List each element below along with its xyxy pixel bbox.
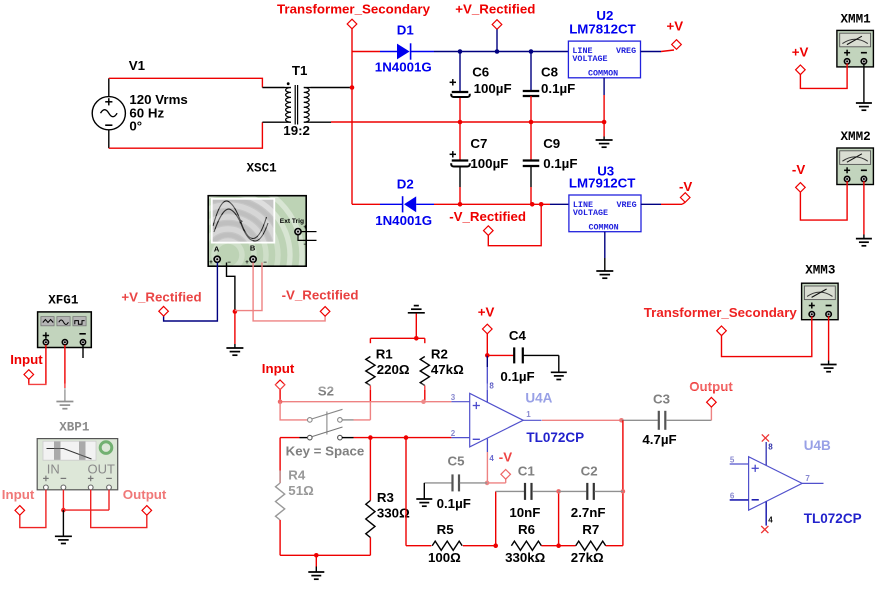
- svg-text:C1: C1: [518, 463, 536, 478]
- svg-text:-V: -V: [792, 162, 805, 177]
- svg-text:C4: C4: [509, 328, 527, 343]
- svg-text:−: −: [263, 260, 267, 266]
- svg-text:+V_Rectified: +V_Rectified: [455, 2, 535, 17]
- svg-text:Key = Space: Key = Space: [286, 444, 365, 459]
- svg-text:100µF: 100µF: [470, 156, 508, 171]
- svg-text:TL072CP: TL072CP: [526, 430, 584, 445]
- svg-text:Input: Input: [262, 361, 295, 376]
- svg-text:0.1µF: 0.1µF: [437, 496, 471, 511]
- svg-text:0°: 0°: [129, 119, 142, 134]
- svg-text:XBP1: XBP1: [59, 421, 90, 435]
- svg-text:XFG1: XFG1: [48, 294, 79, 308]
- svg-text:Ext Trig: Ext Trig: [280, 218, 304, 225]
- svg-text:OUT: OUT: [88, 462, 116, 477]
- svg-text:Output: Output: [123, 487, 167, 502]
- svg-text:2.7nF: 2.7nF: [571, 505, 606, 520]
- svg-text:330kΩ: 330kΩ: [505, 550, 546, 565]
- svg-text:B: B: [250, 244, 256, 253]
- svg-text:COMMON: COMMON: [588, 68, 618, 78]
- svg-text:5: 5: [730, 456, 735, 465]
- svg-text:U4B: U4B: [804, 438, 831, 453]
- svg-text:3: 3: [451, 393, 456, 402]
- svg-text:4: 4: [489, 454, 494, 463]
- svg-text:V1: V1: [129, 58, 146, 73]
- svg-text:COMMON: COMMON: [589, 222, 619, 232]
- svg-text:VREG: VREG: [616, 46, 636, 56]
- svg-text:4.7µF: 4.7µF: [642, 432, 676, 447]
- svg-text:+: +: [209, 260, 213, 266]
- svg-text:10nF: 10nF: [509, 505, 540, 520]
- svg-text:51Ω: 51Ω: [288, 483, 314, 498]
- svg-text:C6: C6: [472, 64, 489, 79]
- svg-text:Transformer_Secondary: Transformer_Secondary: [277, 2, 431, 17]
- svg-text:330Ω: 330Ω: [377, 506, 410, 521]
- svg-text:C2: C2: [581, 463, 598, 478]
- svg-text:0.1µF: 0.1µF: [500, 369, 534, 384]
- svg-text:C8: C8: [541, 64, 558, 79]
- svg-text:19:2: 19:2: [283, 123, 310, 138]
- svg-text:XMM3: XMM3: [805, 263, 835, 277]
- svg-text:VREG: VREG: [617, 200, 637, 210]
- svg-text:27kΩ: 27kΩ: [571, 550, 604, 565]
- svg-text:D1: D1: [397, 23, 415, 38]
- svg-text:+V: +V: [792, 45, 809, 60]
- svg-text:0.1µF: 0.1µF: [543, 156, 577, 171]
- svg-text:-V: -V: [679, 179, 692, 194]
- svg-text:R1: R1: [376, 347, 394, 362]
- svg-text:C5: C5: [448, 453, 466, 468]
- svg-text:T1: T1: [292, 63, 308, 78]
- svg-text:-V_Rectified: -V_Rectified: [282, 288, 359, 303]
- svg-text:IN: IN: [47, 462, 60, 477]
- svg-text:R2: R2: [431, 347, 448, 362]
- svg-text:1N4001G: 1N4001G: [375, 60, 432, 75]
- svg-text:XSC1: XSC1: [247, 161, 278, 175]
- svg-text:Input: Input: [10, 352, 43, 367]
- svg-text:-V: -V: [499, 450, 512, 465]
- svg-text:+V_Rectified: +V_Rectified: [121, 290, 201, 305]
- svg-text:47kΩ: 47kΩ: [431, 362, 464, 377]
- svg-text:XMM2: XMM2: [841, 130, 871, 144]
- svg-text:R4: R4: [288, 468, 306, 483]
- svg-text:+: +: [303, 225, 307, 231]
- svg-text:+: +: [245, 260, 249, 266]
- svg-text:VOLTAGE: VOLTAGE: [572, 54, 607, 64]
- svg-text:220Ω: 220Ω: [377, 362, 410, 377]
- svg-text:6: 6: [730, 491, 735, 500]
- svg-text:D2: D2: [397, 177, 414, 192]
- svg-text:VOLTAGE: VOLTAGE: [573, 208, 608, 218]
- svg-text:4: 4: [768, 516, 773, 525]
- svg-text:R7: R7: [582, 522, 599, 537]
- svg-text:1: 1: [526, 410, 531, 419]
- svg-text:C7: C7: [470, 136, 487, 151]
- svg-text:XMM1: XMM1: [841, 12, 872, 26]
- svg-text:−: −: [303, 242, 307, 248]
- svg-text:0.1µF: 0.1µF: [541, 81, 575, 96]
- svg-text:-V_Rectified: -V_Rectified: [449, 209, 526, 224]
- svg-text:+V: +V: [667, 19, 684, 34]
- svg-text:7: 7: [805, 474, 810, 483]
- svg-text:Transformer_Secondary: Transformer_Secondary: [644, 305, 798, 320]
- svg-text:C3: C3: [653, 392, 670, 407]
- svg-text:TL072CP: TL072CP: [804, 511, 862, 526]
- svg-text:8: 8: [768, 443, 773, 452]
- svg-text:R6: R6: [518, 522, 535, 537]
- svg-text:R3: R3: [377, 490, 394, 505]
- svg-text:U4A: U4A: [525, 391, 552, 406]
- svg-text:1N4001G: 1N4001G: [375, 213, 432, 228]
- svg-text:R5: R5: [437, 522, 455, 537]
- svg-text:C9: C9: [543, 136, 560, 151]
- svg-text:100Ω: 100Ω: [428, 550, 461, 565]
- svg-text:+V: +V: [478, 305, 495, 320]
- svg-text:LM7912CT: LM7912CT: [569, 175, 636, 190]
- svg-text:A: A: [214, 245, 220, 254]
- svg-text:2: 2: [451, 429, 456, 438]
- svg-text:Input: Input: [2, 487, 35, 502]
- svg-text:−: −: [227, 260, 231, 266]
- svg-text:LM7812CT: LM7812CT: [569, 22, 636, 37]
- svg-text:100µF: 100µF: [474, 81, 512, 96]
